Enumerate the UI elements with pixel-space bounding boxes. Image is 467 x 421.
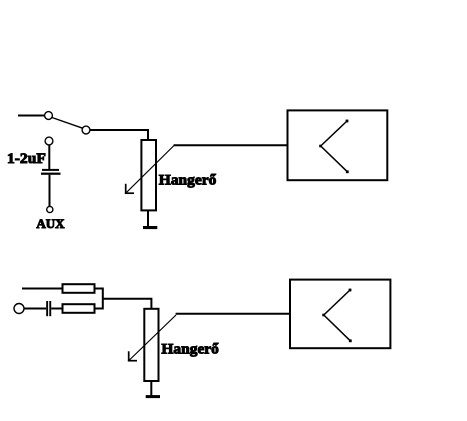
chevron speaker symbol in U2 xyxy=(324,290,351,341)
resistor R1 xyxy=(63,284,95,293)
capacitor C1 top plate xyxy=(42,169,59,171)
switch SW1 pole contact xyxy=(45,112,53,120)
svg-text:1-2uF: 1-2uF xyxy=(7,151,46,167)
capacitor C2 left plate xyxy=(46,301,48,316)
chevron speaker symbol in U1 xyxy=(321,121,348,172)
resistor R2 xyxy=(63,304,95,313)
amplifier box U2 xyxy=(290,280,390,349)
capacitor C1 bottom plate xyxy=(41,173,61,175)
input terminal (bottom circuit) xyxy=(14,304,24,314)
junction vertical wire xyxy=(102,288,104,310)
wire switch to potentiometer P1 top xyxy=(90,130,148,140)
svg-text:AUX: AUX xyxy=(36,216,65,231)
wire input to switch SW1 xyxy=(18,115,45,117)
ground (bottom circuit) xyxy=(146,395,160,398)
ground (top circuit) xyxy=(143,226,157,229)
wire P1 bottom to ground xyxy=(147,211,149,227)
svg-text:Hangerő: Hangerő xyxy=(159,173,217,189)
wire P2 bottom to ground xyxy=(150,381,152,396)
wire terminal to capacitor C2 xyxy=(24,308,46,310)
wire terminal to capacitor C1 xyxy=(48,145,50,169)
switch SW1 blade xyxy=(52,118,82,129)
potentiometer P1 wiper arrow xyxy=(126,146,174,194)
amplifier box U1 xyxy=(288,110,388,180)
potentiometer P2 wiper arrow xyxy=(129,315,176,361)
AUX input terminal top xyxy=(45,137,53,145)
wire junction to potentiometer P2 top xyxy=(103,299,152,309)
potentiometer P1 body xyxy=(141,140,156,210)
node AUX terminal xyxy=(47,206,53,212)
switch SW1 throw contact xyxy=(82,126,90,134)
wire input to resistor R1 xyxy=(22,288,62,290)
wire R2 to junction xyxy=(96,308,104,310)
capacitor C2 right plate xyxy=(49,301,51,316)
wire C2 to resistor R2 xyxy=(51,308,62,310)
wire P2 wiper to amplifier box xyxy=(176,313,290,315)
wire R1 to junction xyxy=(96,288,104,290)
potentiometer P2 body xyxy=(144,309,158,381)
wire capacitor C1 to AUX node xyxy=(49,175,51,207)
wire P1 wiper to amplifier box xyxy=(174,144,288,146)
svg-text:Hangerő: Hangerő xyxy=(161,342,219,358)
